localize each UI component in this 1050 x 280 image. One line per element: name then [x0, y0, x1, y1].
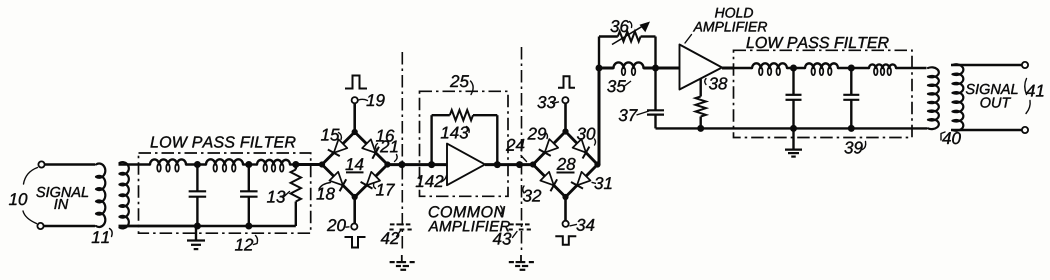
label 17 [374, 183, 395, 196]
resistor 13 [291, 165, 301, 227]
wire inductor 35 to node [644, 67, 656, 70]
hold amplifier triangle [680, 45, 723, 90]
label 30 [577, 128, 596, 145]
feedback top wire left [432, 114, 450, 116]
label 38 [705, 77, 728, 89]
diode 30 [573, 139, 590, 158]
label LOW PASS FILTER (left) [151, 136, 296, 147]
label 11 [92, 229, 112, 244]
bridge 14 edge BR [355, 165, 388, 198]
node dot 35-branch left [596, 65, 603, 72]
node dot c1 [790, 65, 797, 72]
low pass filter 12 box [139, 153, 311, 233]
diode 29 [539, 139, 558, 156]
wire input top [45, 163, 96, 165]
wire L3 to bridge 14 [290, 163, 324, 165]
wire amp output to bridge 28 [485, 163, 534, 166]
bridge 28 edge TR [566, 132, 598, 165]
resistor 38 [696, 79, 706, 129]
inductor L3 [257, 160, 290, 172]
op-amp 142 triangle [447, 144, 485, 186]
wire node to hold amp [656, 67, 680, 70]
common amplifier box 25 [420, 91, 509, 196]
bridge 28 edge BL [533, 165, 566, 198]
gate terminal 20 [351, 224, 357, 230]
gate lead up 28 [564, 103, 567, 131]
gate lead up 14 [353, 103, 356, 132]
pulse symbol above 33 [558, 76, 575, 88]
diode 32 [540, 172, 557, 191]
node dot a3 [292, 161, 299, 168]
label 10 [9, 193, 27, 205]
label 24 [506, 139, 527, 162]
wire L5-L6 [838, 67, 869, 69]
feedback resistor 143 [450, 110, 473, 120]
capacitor C2 top lead [248, 165, 250, 192]
label 41 [1025, 79, 1044, 114]
gate lead down 28 [564, 197, 567, 221]
label 16 [376, 130, 395, 149]
filter bottom rail [119, 225, 296, 227]
label 33 [537, 96, 559, 108]
node dot 35-branch right [652, 65, 659, 72]
inductor L6 [869, 64, 896, 75]
inductor 35 [614, 62, 644, 75]
diode 31 [571, 172, 590, 189]
rail node dot d2 [848, 125, 855, 132]
label 14 [345, 158, 363, 172]
label SIGNAL OUT [966, 84, 1018, 108]
node dot res38 bottom [697, 125, 704, 132]
label 36 [610, 20, 631, 32]
low pass filter 39 box [734, 50, 913, 137]
label 142 [416, 175, 447, 187]
capacitor C1 top lead [196, 165, 198, 192]
label LOW PASS FILTER (right) [746, 37, 888, 48]
wire input bottom [44, 225, 96, 227]
label 43 [493, 232, 517, 245]
wire secondary top to filter [119, 163, 151, 165]
bridge 14 edge TL [322, 132, 355, 165]
wire L1-L2 [186, 163, 206, 165]
ground line 43 [509, 255, 534, 270]
bottom rail right [656, 127, 928, 129]
label 40 [941, 132, 961, 144]
label 42 [381, 231, 401, 245]
label 31 [592, 177, 612, 189]
bridge 28 vertex dots [530, 128, 601, 200]
node dot c2 [848, 65, 855, 72]
ground under filter 12 [187, 226, 205, 249]
capacitor 37 bottom lead [654, 115, 656, 129]
capacitor C3 [786, 68, 802, 128]
node dot a1 [194, 161, 201, 168]
inductor L1 [150, 159, 186, 171]
capacitor 37 top lead [654, 68, 656, 110]
resistor 36 branch right leg [654, 37, 656, 69]
feedback left leg [430, 115, 432, 164]
inductor L5 [805, 63, 838, 75]
rail node dot b1 [194, 223, 201, 230]
bridge 28 edge BR [566, 165, 598, 198]
label 18 [316, 183, 334, 200]
label 32 [523, 186, 541, 202]
gate lead down 14 [353, 197, 356, 224]
feedback right leg [496, 115, 498, 164]
label 12 [235, 236, 258, 251]
transformer T-in primary winding [96, 164, 105, 227]
bridge 14 edge TR [355, 132, 388, 165]
rail node dot d1 [790, 125, 797, 132]
resistor 36 branch top right [641, 35, 656, 37]
label 20 [327, 219, 350, 231]
wire L6 to transformer [896, 67, 927, 69]
bridge 14 edge BL [322, 165, 355, 198]
capacitor C4 [843, 68, 859, 128]
resistor 36 branch left leg [598, 37, 600, 69]
node dot feedback left [428, 161, 435, 168]
input terminal top (to 10) [38, 161, 44, 167]
label 37 [619, 109, 649, 121]
gate line 43 crossbar [509, 224, 531, 229]
ground line 42 [390, 255, 415, 270]
node dot a2 [245, 161, 252, 168]
diode 15 [328, 139, 347, 156]
label 39 [844, 142, 865, 154]
label 143 [441, 127, 469, 139]
ground under filter 39 [785, 128, 802, 156]
gate line 42 [401, 52, 403, 251]
label 35 [607, 80, 631, 92]
pulse symbol below 34 [555, 236, 576, 245]
wire L4-L5 [787, 67, 805, 69]
bridge 14 vertex dots [319, 129, 391, 200]
label 34 [570, 219, 595, 231]
node dot at line 42 [398, 161, 405, 168]
output terminal bottom [1022, 127, 1028, 133]
capacitor C1 [189, 191, 207, 226]
inductor L2 [206, 159, 243, 171]
gate terminal 19 [352, 97, 358, 103]
capacitor C2 [240, 191, 257, 226]
transformer 40 primary winding [928, 67, 939, 129]
leader curve from top input terminal [24, 168, 38, 185]
arrow through resistor 36 [612, 22, 650, 45]
node dot 24 [516, 161, 523, 168]
gate line 42 crossbar [389, 224, 411, 229]
feedback top wire right [473, 114, 497, 116]
label 13 [267, 191, 290, 203]
gate terminal 33 [562, 97, 568, 103]
diode 16 [362, 139, 379, 158]
leader curve from bottom input terminal [23, 211, 37, 224]
gate terminal 34 [563, 221, 569, 227]
resistor 36 [618, 32, 641, 42]
label COMMON AMPLIFIER [428, 206, 510, 231]
node dot amp output [494, 161, 501, 168]
wire output bottom [951, 129, 1022, 132]
wire hold amp output [722, 67, 752, 70]
wire bridge28 right vertex up [598, 68, 601, 165]
input terminal bottom (to 10) [37, 223, 43, 229]
label 25 [450, 75, 473, 94]
transformer T-in secondary winding [120, 162, 129, 228]
label SIGNAL IN [36, 187, 88, 209]
pulse symbol above 19 [345, 76, 367, 89]
output terminal top [1022, 62, 1028, 68]
wire node to inductor 35 [599, 67, 614, 70]
label 19 [359, 94, 385, 106]
wire bridge14 to amplifier [388, 163, 449, 166]
wire output top [951, 64, 1022, 67]
diode 18 [329, 172, 346, 191]
label 21 [380, 140, 398, 161]
wire secondary bottom to rail [119, 225, 199, 227]
wire L2-L3 [243, 163, 257, 165]
label HOLD AMPLIFIER [685, 8, 767, 43]
rail node dot b2 [245, 223, 252, 230]
label 28 [557, 158, 576, 173]
bridge 28 edge TL [533, 132, 566, 165]
label 15 [321, 129, 341, 141]
label 29 [527, 128, 547, 140]
diode 17 [361, 172, 380, 189]
gate line 43 [521, 47, 523, 251]
resistor 36 branch top left [599, 35, 618, 37]
pulse symbol below 20 [345, 237, 366, 248]
transformer 40 secondary winding [953, 64, 964, 131]
capacitor 37 [647, 110, 664, 114]
inductor L4 [752, 63, 787, 75]
